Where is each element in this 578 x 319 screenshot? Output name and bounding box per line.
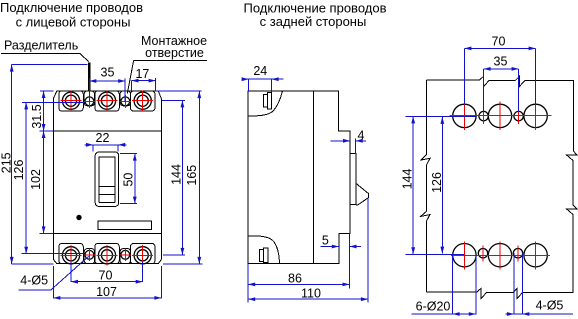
front bottom terminal 2 screw circles — [98, 247, 115, 264]
front top terminal 1 housing — [59, 91, 84, 111]
dimension 107 (body width) — [53, 297, 161, 299]
label and dimension 6-Ø20 — [452, 255, 454, 314]
svg-text:70: 70 — [492, 34, 506, 48]
dimension 144 (rear, hole rows) — [412, 116, 414, 254]
toggle handle outer bezel — [95, 152, 119, 206]
centre mark, front top terminal — [61, 100, 82, 102]
front bottom terminal 1 screw circles — [62, 247, 79, 264]
front top terminal 3 housing — [130, 91, 155, 111]
svg-text:24: 24 — [253, 64, 267, 78]
rear bottom terminal hole 2 (Ø20) — [488, 244, 511, 267]
extension line, bottom terminal centre row (left) — [22, 253, 85, 255]
svg-text:с задней стороны: с задней стороны — [260, 14, 367, 29]
centre mark, front bottom mounting hole — [84, 254, 95, 256]
rear bottom terminal hole 1 (Ø20) — [453, 244, 476, 267]
toggle handle inner — [99, 157, 115, 203]
extension line at upper section line (left) — [40, 130, 54, 132]
side view: DIN-rail clip bar — [350, 154, 356, 205]
centre mark, front top mounting hole — [120, 100, 131, 102]
dimension 35 (rear mounting hole spacing) — [483, 69, 485, 112]
svg-text:144: 144 — [400, 169, 414, 190]
extension line, side front face downward — [247, 264, 249, 303]
centre mark vertical, rear top terminal hole — [499, 102, 501, 130]
dimension 35 (mounting hole spacing, top) — [89, 80, 125, 82]
rear bottom mounting hole 1 (Ø5) — [478, 249, 487, 258]
extension line at lower section line (left) — [40, 232, 54, 234]
rear top terminal hole 2 (Ø20) — [488, 104, 511, 127]
rear top mounting hole 1 (Ø5) — [479, 111, 488, 120]
centre mark, front top terminal — [97, 100, 118, 102]
svg-text:126: 126 — [12, 160, 26, 181]
centre mark, front bottom terminal — [61, 254, 82, 256]
extension line, top terminal centre row (left) — [22, 101, 84, 103]
toggle handle stripe 1 — [99, 186, 115, 188]
svg-text:Подключение проводов: Подключение проводов — [0, 0, 143, 15]
dimension 50 (toggle height) — [134, 154, 136, 204]
separator tab (разделитель) between poles — [88, 62, 90, 91]
svg-text:165: 165 — [185, 165, 199, 186]
dimension 4 (rail clip thickness) — [330, 140, 350, 142]
dimension 31.5 — [43, 91, 45, 131]
rear view: bottom edge with break marks — [427, 288, 574, 298]
centre mark, front top mounting hole — [84, 100, 95, 102]
extension line, bottom of body (right) — [163, 263, 203, 265]
centre mark vertical, rear bottom mounting hole — [482, 245, 484, 261]
dimension 86 (depth to rear face) — [248, 283, 349, 285]
svg-text:86: 86 — [288, 271, 302, 285]
extension line, top terminal row toward right dims — [161, 99, 185, 101]
extension line from clip hook downward — [367, 198, 369, 303]
centre mark vertical, rear bottom terminal hole — [535, 241, 537, 269]
front bottom terminal 3 screw circles — [134, 247, 151, 264]
side view: internal vertical line (front face of base) — [313, 91, 315, 264]
extension line, top of separator — [12, 64, 88, 66]
extension line, bottom terminal row (right) — [163, 254, 185, 256]
side view: bottom slot detail — [264, 248, 269, 262]
svg-text:35: 35 — [101, 66, 115, 80]
svg-text:4-Ø5: 4-Ø5 — [20, 274, 48, 288]
svg-text:107: 107 — [96, 285, 117, 299]
front view: lower section line — [53, 232, 161, 234]
dimension 17 — [132, 80, 156, 82]
extension line, side rear face downward — [349, 234, 351, 289]
front bottom mounting-hole pocket 2 — [120, 249, 130, 264]
rear bottom mounting hole 2 (Ø5) — [513, 249, 522, 258]
centre mark vertical, rear top mounting hole — [518, 108, 520, 124]
dimension 110 (overall depth) — [248, 298, 368, 300]
dimension 70 (rear terminal hole spacing) — [463, 48, 465, 104]
svg-text:5: 5 — [322, 233, 329, 247]
dimension 215 (overall height) — [11, 65, 13, 264]
front top mounting hole 2 (Ø5) — [121, 97, 130, 106]
dimension 165 (front overall) — [198, 91, 200, 264]
dimension 5 (rear step) — [321, 246, 339, 248]
label and dimension 4-Ø5 (rear) — [513, 253, 515, 314]
front bottom terminal 2 housing — [95, 244, 120, 264]
extension line, bottom of body (left) — [12, 263, 54, 265]
front bottom mounting hole 2 (Ø5) — [121, 250, 130, 259]
extension line, rear top row leftward — [406, 115, 476, 117]
extension lines body width downward — [52, 266, 54, 298]
centre line, rear bottom row — [451, 254, 550, 256]
front bottom terminal 1 housing — [59, 244, 84, 264]
front bottom mounting-hole pocket 1 — [84, 249, 94, 264]
front top terminal 2 screw circles — [98, 92, 115, 109]
dimension 22 (toggle width) — [85, 144, 127, 146]
dimension 144 (front, terminal rows) — [181, 100, 183, 255]
svg-text:Разделитель: Разделитель — [4, 38, 78, 52]
side view: bottom-left cover curve — [248, 236, 280, 264]
side view: top slot detail — [268, 92, 272, 109]
svg-text:22: 22 — [96, 131, 110, 145]
dimension 24 (side, top) — [248, 79, 250, 91]
centre mark vertical, rear top terminal hole — [463, 102, 465, 130]
front bottom terminal 3 housing — [130, 244, 155, 264]
svg-text:110: 110 — [301, 286, 321, 300]
rear top terminal hole 3 (Ø20) — [524, 104, 547, 127]
toggle handle stripe 2 — [99, 194, 115, 196]
svg-text:4: 4 — [358, 128, 365, 142]
centre mark vertical, rear bottom mounting hole — [517, 245, 519, 261]
extension lines terminals 1 and 3 downward — [70, 262, 72, 282]
svg-text:102: 102 — [29, 169, 43, 190]
side view: top-left cover curve — [248, 91, 282, 116]
rear top mounting hole 2 (Ø5) — [514, 111, 523, 120]
front top terminal 1 screw circles — [62, 92, 79, 109]
extension line at body top edge (left) — [40, 90, 53, 92]
svg-text:50: 50 — [122, 173, 136, 187]
front view: breaker body outline — [53, 91, 161, 264]
centre mark vertical, rear top mounting hole — [483, 108, 485, 124]
rear view: right edge with break marks — [567, 80, 577, 292]
front view: upper section line — [53, 130, 161, 132]
dimension 126 (rear) — [441, 117, 443, 254]
svg-text:35: 35 — [494, 55, 508, 69]
front bottom mounting hole 1 (Ø5) — [85, 250, 94, 259]
front top terminal 2 housing — [95, 91, 120, 111]
centre mark vertical, rear top terminal hole — [535, 102, 537, 130]
indicator dot — [76, 215, 81, 220]
label window — [98, 221, 152, 229]
svg-text:отверстие: отверстие — [145, 46, 204, 60]
dimension 102 — [43, 131, 45, 233]
rear bottom terminal hole 3 (Ø20) — [524, 244, 547, 267]
extension line, block top toward right dims — [156, 90, 202, 92]
dimension 126 (terminal row spacing) — [25, 102, 27, 253]
rear view: left edge with break marks — [421, 80, 430, 292]
svg-text:6-Ø20: 6-Ø20 — [416, 299, 451, 313]
svg-text:70: 70 — [99, 268, 113, 282]
side view: DIN-rail clip hook — [356, 183, 369, 205]
front top terminal 3 screw circles — [134, 92, 151, 109]
centre mark, front top terminal — [132, 100, 153, 102]
extension line, rear bottom row leftward — [406, 253, 465, 255]
centre line, rear top row — [450, 114, 552, 116]
dimension 70 (terminal spacing) — [71, 281, 143, 283]
centre mark, front bottom terminal — [97, 254, 118, 256]
centre mark, front bottom mounting hole — [120, 254, 131, 256]
svg-text:126: 126 — [430, 172, 444, 193]
svg-text:17: 17 — [135, 67, 149, 81]
centre mark vertical, rear bottom terminal hole — [463, 241, 465, 269]
front top mounting-hole pocket 2 — [120, 91, 130, 106]
side view: body outline — [248, 91, 350, 264]
rear view: outline with break marks - top edge — [427, 76, 574, 86]
front top mounting-hole pocket 1 — [84, 91, 94, 106]
centre mark vertical, rear bottom terminal hole — [499, 241, 501, 269]
svg-text:с лицевой стороны: с лицевой стороны — [16, 14, 131, 29]
centre mark, front bottom terminal — [132, 254, 153, 256]
rear top terminal hole 1 (Ø20) — [453, 104, 476, 127]
svg-text:4-Ø5: 4-Ø5 — [536, 299, 564, 313]
svg-text:31.5: 31.5 — [30, 104, 44, 128]
front top mounting hole 1 (Ø5) — [85, 97, 94, 106]
svg-text:144: 144 — [170, 164, 184, 185]
